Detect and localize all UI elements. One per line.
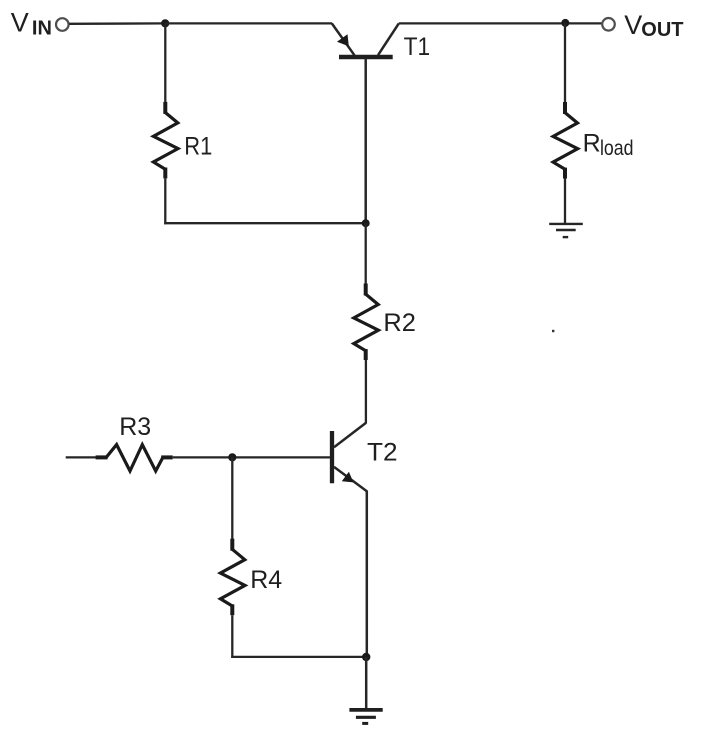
svg-text:R: R	[583, 129, 601, 157]
label R1	[184, 132, 212, 160]
label R2	[383, 309, 416, 337]
wire node A down to R1	[164, 23, 166, 103]
wire R4 to bottom rail	[231, 615, 233, 658]
label R3	[119, 413, 151, 441]
transistor T1	[332, 23, 399, 57]
resistor R2	[354, 284, 379, 361]
label Rload	[583, 129, 634, 160]
wire T1 base down to node C	[364, 58, 367, 223]
svg-text:OUT: OUT	[641, 19, 683, 41]
wire node D down to R4	[231, 457, 233, 540]
svg-text:R1: R1	[184, 132, 212, 160]
junction node B	[561, 19, 569, 27]
junction node C	[362, 219, 370, 227]
label T2	[367, 439, 398, 467]
svg-text:T1: T1	[404, 33, 431, 61]
svg-text:R4: R4	[250, 566, 282, 594]
stray mark	[552, 330, 554, 332]
terminal VOUT	[602, 18, 615, 31]
wire node horizontal R1 to base node C	[164, 222, 366, 224]
ground Rload	[549, 224, 583, 237]
resistor R4	[220, 539, 245, 616]
svg-text:IN: IN	[32, 18, 52, 40]
terminal VIN	[56, 18, 69, 31]
label R4	[250, 566, 282, 594]
junction node E	[362, 653, 370, 661]
wire VIN terminal to node A	[69, 22, 165, 25]
svg-text:T2: T2	[367, 439, 398, 467]
label T1	[404, 33, 431, 61]
svg-text:load: load	[600, 137, 634, 160]
svg-text:V: V	[624, 10, 642, 40]
resistor Rload	[553, 102, 578, 179]
junction node D	[228, 453, 236, 461]
junction node A	[161, 19, 169, 27]
resistor R1	[153, 102, 178, 178]
wire R2 to T2 collector	[365, 360, 367, 424]
wire bottom rail to node E	[231, 656, 366, 658]
wire Rload to ground	[564, 179, 566, 224]
transistor T2	[332, 423, 367, 491]
wire node C to R2	[365, 223, 367, 284]
svg-text:R2: R2	[383, 309, 416, 337]
wire R1 to node wire	[164, 178, 166, 224]
ground main	[349, 710, 382, 724]
wire node E to ground	[365, 657, 368, 710]
wire T2 emitter down to node E	[366, 491, 369, 658]
label VIN	[11, 7, 52, 39]
wire node B down to Rload	[564, 23, 566, 103]
svg-text:V: V	[11, 7, 29, 37]
wire R3 input stub	[66, 456, 97, 458]
resistor R3	[96, 445, 173, 471]
svg-text:R3: R3	[119, 413, 151, 441]
wire R3 to T2 base through node D	[173, 456, 331, 458]
wire node A to T1 emitter	[165, 22, 332, 24]
wire T1 collector to node B	[399, 22, 602, 24]
label VOUT	[624, 10, 683, 41]
